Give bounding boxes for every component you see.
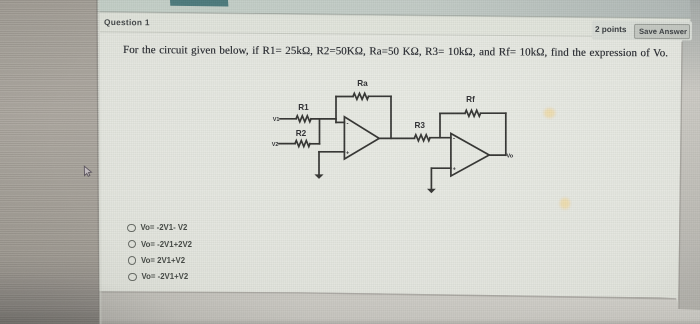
wire feedback left vertical — [335, 97, 337, 123]
ground symbol G1 — [314, 174, 323, 179]
wire R1 to node — [311, 118, 336, 120]
wire ground drop U2 — [430, 168, 432, 189]
wire non-inverting input U1 — [319, 151, 344, 153]
wire Rf right vertical — [505, 113, 507, 155]
node V1 input wire — [280, 118, 296, 120]
bottom-left corner shadow — [0, 250, 260, 324]
circuit schematic — [255, 70, 540, 205]
wire feedback top right — [369, 95, 391, 97]
glare spot upper — [541, 106, 557, 120]
answer options — [0, 0, 1, 1]
wire feedback right vertical — [390, 96, 392, 138]
wire junction vertical R1-R2 — [319, 119, 321, 144]
resistor Ra — [353, 93, 369, 99]
scanline/moire texture overlays — [0, 0, 99, 324]
mouse cursor — [82, 164, 94, 178]
wire inverting input stub op-amp U1 — [336, 121, 344, 123]
option radio 3 — [128, 256, 137, 265]
wire R3 to op-amp U2 — [430, 137, 451, 139]
wire non-inverting input U2 — [431, 167, 451, 169]
question text — [123, 44, 683, 59]
header underline — [100, 31, 688, 37]
panel bottom edge line — [99, 291, 676, 299]
question header bar tint — [97, 12, 691, 36]
left sidebar — [0, 0, 99, 324]
resistor R3 — [415, 135, 431, 141]
option radio 2 — [128, 240, 137, 249]
wire R2 to junction — [310, 143, 320, 145]
node V2 input wire — [279, 143, 295, 145]
top banner — [97, 0, 691, 18]
option radio 1 — [127, 224, 136, 233]
wire output U2 node Vo — [489, 154, 506, 156]
resistor Rf — [465, 110, 481, 116]
wire Rf left vertical — [439, 113, 441, 137]
wire output U1 to R3 — [379, 137, 415, 139]
resistor R1 — [296, 116, 311, 122]
2 points chip + save answer button — [592, 20, 692, 39]
teal button remnant in banner — [170, 0, 228, 7]
wire ground drop U1 — [318, 152, 320, 175]
glare spot lower — [557, 195, 572, 211]
wire feedback top left — [336, 96, 353, 98]
op-amp U2 — [451, 134, 489, 177]
ground symbol G2 — [427, 189, 436, 194]
wire Rf top right — [481, 112, 506, 114]
Question 1 header text — [104, 17, 150, 27]
option radio 4 — [128, 273, 137, 282]
bottom band below panel — [97, 291, 700, 324]
op-amp U1 — [344, 117, 379, 159]
right strip — [678, 0, 700, 310]
sidebar/panel edge shading — [96, 0, 99, 324]
wire Rf top left — [440, 112, 465, 114]
resistor R2 — [295, 141, 310, 147]
